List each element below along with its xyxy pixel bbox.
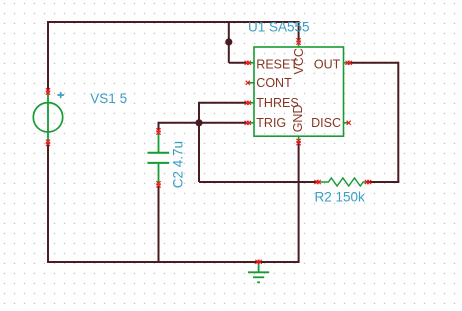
wire: right rail to R2 right terminal xyxy=(368,181,399,183)
pin label DISC xyxy=(311,116,341,130)
wire: OUT horizontal to right rail xyxy=(349,62,399,64)
svg-text:CONT: CONT xyxy=(256,76,292,90)
U1 RESET pin cross xyxy=(245,61,251,65)
U1 pin stub VCC (top) xyxy=(298,43,300,48)
wire: top rail horizontal xyxy=(47,21,299,23)
wire: stub down to C2 top terminal xyxy=(158,122,160,132)
resistor R2 body xyxy=(318,178,368,186)
wire: vertical THRES/TRIG node xyxy=(198,102,200,182)
U1 pin stub RESET xyxy=(249,62,255,64)
wire: RESET branch vertical from top rail xyxy=(228,21,230,63)
wire: RESET branch horizontal to RESET pin xyxy=(229,62,248,64)
wire: THRES horizontal xyxy=(199,102,248,104)
wire: node horizontal to R2 left terminal xyxy=(199,181,318,183)
wire: VS+ terminal up to top rail xyxy=(47,22,49,92)
op-amp U1 SA555 body xyxy=(254,47,344,136)
U1 THRES pin cross xyxy=(245,101,251,105)
VS1 plus polarity mark xyxy=(57,92,64,98)
pin label OUT xyxy=(314,58,341,72)
U1 pin stub GND (bottom) xyxy=(298,136,300,142)
pin label RESET xyxy=(256,58,298,72)
U1 CONT pin cross xyxy=(246,81,250,85)
svg-text:OUT: OUT xyxy=(314,58,341,72)
U1 OUT pin cross xyxy=(346,61,352,65)
svg-text:TRIG: TRIG xyxy=(256,116,286,130)
pin label THRES xyxy=(256,96,298,110)
svg-text:DISC: DISC xyxy=(311,116,341,130)
svg-text:VS1 5: VS1 5 xyxy=(90,91,127,106)
svg-text:R2 150k: R2 150k xyxy=(315,190,366,205)
ground symbol xyxy=(248,262,269,282)
U1 DISC pin cross xyxy=(347,121,351,125)
C2 bottom terminal cross xyxy=(156,181,160,187)
wire: U1 GND pin down to bottom rail xyxy=(298,142,300,263)
VS1 top terminal cross xyxy=(46,88,50,94)
junction dot THRES/TRIG node xyxy=(195,119,202,126)
U1 TRIG pin cross xyxy=(245,121,251,125)
svg-text:VCC: VCC xyxy=(292,48,306,74)
VS1 bottom terminal cross xyxy=(46,140,50,146)
svg-text:U1 SA555: U1 SA555 xyxy=(248,20,310,35)
U1 GND pin cross xyxy=(297,139,301,145)
U1 pin stub OUT xyxy=(344,62,350,64)
voltage source VS1 body xyxy=(33,93,62,142)
wire: C2 bottom terminal down to bottom rail xyxy=(158,185,160,263)
pin label GND (rotated) xyxy=(291,105,305,133)
C2 top terminal cross xyxy=(156,128,160,134)
capacitor C2 body xyxy=(147,132,169,184)
R2 left terminal cross xyxy=(314,180,320,184)
wire: bottom rail horizontal xyxy=(47,261,299,263)
pin label VCC (rotated) xyxy=(292,48,306,74)
wire: drop from top rail to U1 VCC pin xyxy=(298,21,300,42)
label U1 SA555 xyxy=(248,20,310,35)
svg-text:C2 4.7u: C2 4.7u xyxy=(170,141,185,188)
label VS1 5 xyxy=(90,91,127,106)
junction dot on RESET branch xyxy=(225,38,232,45)
U1 pin stub TRIG xyxy=(249,122,255,124)
label C2 4.7u (rotated) xyxy=(170,141,185,188)
svg-text:GND: GND xyxy=(291,105,305,133)
U1 VCC pin cross xyxy=(297,38,301,44)
wire: VS- terminal down to bottom rail xyxy=(47,143,49,263)
wire: right rail vertical xyxy=(397,62,399,182)
pin label CONT xyxy=(256,76,292,90)
R2 right terminal cross xyxy=(365,180,371,184)
U1 pin stub DISC xyxy=(344,122,350,124)
U1 pin stub CONT xyxy=(249,82,255,84)
U1 pin stub THRES xyxy=(249,102,255,104)
ground terminal cross xyxy=(255,260,261,264)
wire: TRIG horizontal to capacitor xyxy=(159,122,248,124)
label R2 150k xyxy=(315,190,366,205)
pin label TRIG xyxy=(256,116,286,130)
